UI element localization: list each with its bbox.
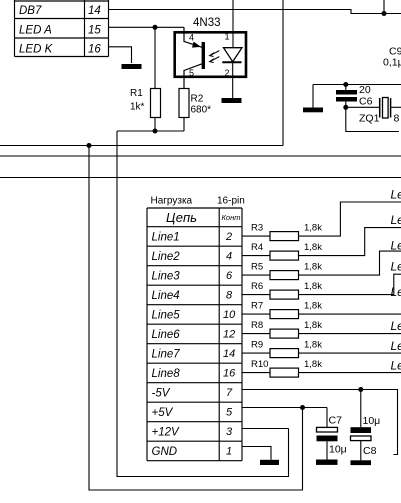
svg-text:10: 10 bbox=[223, 309, 236, 321]
wire rail 2 bbox=[0, 155, 401, 157]
resistor R9 body bbox=[270, 349, 299, 358]
svg-text:1,8k: 1,8k bbox=[304, 281, 322, 292]
svg-text:5: 5 bbox=[189, 68, 194, 78]
svg-text:1,8k: 1,8k bbox=[304, 359, 322, 370]
svg-text:1: 1 bbox=[225, 32, 230, 42]
svg-text:R1: R1 bbox=[130, 88, 143, 99]
svg-text:Le: Le bbox=[391, 260, 401, 274]
svg-text:3: 3 bbox=[226, 426, 233, 438]
wire C6 bottom to crystal bbox=[346, 106, 380, 108]
capacitor C7 lead to ground bbox=[326, 441, 328, 459]
svg-text:12: 12 bbox=[223, 329, 235, 341]
capacitor C8 negative plate bbox=[351, 427, 372, 433]
capacitor C8 positive plate bbox=[351, 436, 372, 441]
crystal ZQ1 bbox=[380, 98, 391, 118]
svg-text:14: 14 bbox=[223, 348, 235, 360]
wire Line2 to R4 and out bbox=[242, 228, 401, 256]
resistor R2 body bbox=[179, 89, 189, 118]
junction node LED A / R1 bbox=[153, 25, 158, 30]
svg-text:1,8k: 1,8k bbox=[304, 340, 322, 351]
ground for GND pin bbox=[260, 460, 279, 465]
capacitor C7 positive plate bbox=[326, 408, 328, 428]
ground for C8 bbox=[351, 460, 372, 465]
svg-text:GND: GND bbox=[152, 446, 178, 458]
svg-text:R10: R10 bbox=[251, 359, 268, 370]
svg-text:DB7: DB7 bbox=[19, 5, 42, 17]
svg-text:Line7: Line7 bbox=[152, 349, 181, 361]
svg-text:1,8k: 1,8k bbox=[304, 223, 322, 234]
wire rail 3 bbox=[0, 177, 401, 179]
svg-text:Le: Le bbox=[391, 285, 401, 299]
svg-text:1,8k: 1,8k bbox=[304, 262, 322, 273]
wire +5V rail to crystal area bbox=[313, 84, 401, 86]
resistor R4 body bbox=[270, 251, 299, 260]
wire Line1 to R3 and out bbox=[242, 202, 401, 236]
svg-text:Le: Le bbox=[391, 319, 401, 333]
svg-text:R3: R3 bbox=[251, 223, 263, 234]
resistor R5 body bbox=[270, 271, 299, 280]
junction node C6 bottom bbox=[343, 105, 348, 110]
ground for C7 bbox=[316, 460, 338, 465]
svg-text:0,1μ: 0,1μ bbox=[383, 57, 401, 69]
svg-text:LED K: LED K bbox=[19, 44, 54, 56]
svg-text:C7: C7 bbox=[329, 415, 343, 427]
ground for LED K bbox=[122, 64, 142, 69]
svg-text:+5V: +5V bbox=[152, 407, 174, 419]
svg-text:16-pin: 16-pin bbox=[217, 196, 245, 207]
svg-text:Line3: Line3 bbox=[152, 271, 181, 283]
svg-text:C6: C6 bbox=[359, 96, 373, 108]
svg-text:Line1: Line1 bbox=[152, 232, 180, 244]
led triangle bbox=[224, 48, 243, 62]
wire Line8 to R10 and out bbox=[242, 372, 401, 374]
svg-text:Le: Le bbox=[391, 339, 401, 353]
svg-text:8: 8 bbox=[226, 290, 233, 302]
wire opto pin 1 up to top edge bbox=[232, 0, 234, 48]
svg-text:10μ: 10μ bbox=[363, 415, 381, 427]
wire rail 1 bbox=[0, 145, 283, 147]
led anode wire pin1 bbox=[232, 48, 234, 62]
light arrow 2 bbox=[211, 57, 220, 62]
svg-text:2: 2 bbox=[225, 231, 232, 243]
wire -5V net bbox=[242, 390, 398, 455]
svg-text:Нагрузка: Нагрузка bbox=[151, 196, 193, 207]
wire LED A to optocoupler pin 4 bbox=[109, 26, 185, 28]
svg-text:16: 16 bbox=[223, 368, 236, 380]
svg-text:R4: R4 bbox=[251, 242, 263, 253]
svg-text:R6: R6 bbox=[251, 281, 263, 292]
wire Line3 to R5 and out bbox=[242, 251, 401, 275]
junction node rail1 x89 bbox=[87, 143, 92, 148]
svg-text:Line4: Line4 bbox=[152, 290, 180, 302]
svg-text:20: 20 bbox=[359, 84, 371, 96]
connector table borders bbox=[147, 208, 242, 461]
phototransistor collector arrowhead bbox=[192, 42, 201, 48]
svg-text:Line5: Line5 bbox=[152, 310, 181, 322]
wire R1 top lead bbox=[154, 27, 156, 88]
wire stub up from DB7 node bbox=[383, 0, 385, 14]
optocoupler U1 box bbox=[175, 32, 246, 77]
svg-text:Le: Le bbox=[391, 359, 401, 373]
svg-text:Line2: Line2 bbox=[152, 251, 181, 263]
light arrow 1 bbox=[211, 51, 220, 56]
svg-text:Конт: Конт bbox=[222, 213, 241, 222]
junction node R1 bottom bbox=[153, 129, 158, 134]
wire R1 bottom lead bbox=[154, 118, 156, 132]
phototransistor emitter line pin5 bbox=[184, 64, 202, 89]
svg-text:5: 5 bbox=[226, 407, 233, 419]
svg-text:7: 7 bbox=[226, 387, 233, 399]
led cathode wire pin2 to ground bbox=[232, 62, 234, 98]
ground left of C6 bbox=[312, 85, 314, 108]
svg-text:16: 16 bbox=[88, 44, 101, 56]
svg-text:Le: Le bbox=[391, 213, 401, 227]
svg-text:4: 4 bbox=[226, 251, 232, 263]
wire DB7 to right edge bbox=[109, 10, 401, 14]
svg-text:-5V: -5V bbox=[152, 388, 171, 400]
svg-text:8: 8 bbox=[394, 113, 400, 125]
svg-text:Line8: Line8 bbox=[152, 368, 181, 380]
svg-text:14: 14 bbox=[88, 5, 101, 17]
svg-text:C8: C8 bbox=[363, 445, 377, 457]
svg-text:1,8k: 1,8k bbox=[304, 242, 322, 253]
svg-text:R7: R7 bbox=[251, 301, 263, 312]
led cathode bar bbox=[222, 61, 241, 63]
svg-text:10μ: 10μ bbox=[329, 444, 347, 456]
wire C6 bottom down and right bbox=[346, 107, 399, 131]
junction node C6 top bbox=[343, 82, 348, 87]
wire +5V net left vertical and bottom run bbox=[89, 146, 303, 491]
svg-text:15: 15 bbox=[88, 25, 101, 37]
phototransistor collector line pin4 bbox=[184, 27, 202, 47]
resistor R8 body bbox=[270, 329, 299, 338]
wire +12V pin stub bbox=[242, 428, 289, 430]
ground for led pin2 bbox=[222, 98, 242, 103]
svg-text:1k*: 1k* bbox=[130, 102, 145, 113]
wire LED K to ground bbox=[109, 47, 132, 63]
svg-text:4N33: 4N33 bbox=[193, 17, 221, 29]
svg-text:1: 1 bbox=[226, 446, 232, 458]
connector table top-left borders bbox=[15, 0, 109, 57]
junction node -5V / C8 bbox=[358, 387, 363, 392]
resistor R10 body bbox=[270, 368, 299, 377]
capacitor C8 lead from -5V bbox=[360, 390, 362, 428]
resistor ladder wires and bodies bbox=[242, 202, 401, 373]
resistor R6 body bbox=[270, 290, 299, 299]
wire R2 bottom lead bbox=[183, 118, 185, 132]
svg-text:2: 2 bbox=[225, 68, 230, 78]
wire R1 R2 bottom bus bbox=[117, 130, 184, 132]
svg-text:1,8k: 1,8k bbox=[304, 301, 322, 312]
wire Line4 to R6 and out bbox=[242, 274, 401, 294]
svg-text:ZQ1: ZQ1 bbox=[359, 113, 380, 125]
svg-text:Le: Le bbox=[391, 188, 401, 202]
svg-text:R5: R5 bbox=[251, 262, 263, 273]
capacitor C6 bbox=[345, 85, 347, 91]
svg-text:R2: R2 bbox=[191, 94, 204, 105]
svg-text:+12V: +12V bbox=[152, 427, 181, 439]
svg-text:6: 6 bbox=[226, 270, 233, 282]
svg-text:R8: R8 bbox=[251, 320, 263, 331]
svg-text:Цепь: Цепь bbox=[166, 210, 197, 225]
wire +5V net bbox=[242, 407, 327, 409]
svg-text:Line6: Line6 bbox=[152, 329, 181, 341]
svg-text:LED A: LED A bbox=[19, 25, 52, 37]
phototransistor base bar bbox=[202, 42, 205, 69]
wire Line7 to R9 and out bbox=[242, 352, 401, 354]
junction node DB7 x384 bbox=[382, 11, 387, 16]
svg-text:1,8k: 1,8k bbox=[304, 320, 322, 331]
svg-text:Le: Le bbox=[391, 239, 401, 253]
wire GND pin to ground bbox=[242, 447, 271, 460]
wire Line6 to R8 and out bbox=[242, 333, 401, 335]
svg-text:R9: R9 bbox=[251, 340, 263, 351]
resistor R7 body bbox=[270, 310, 299, 319]
resistor R3 body bbox=[270, 232, 299, 241]
wire long vertical x283 to rail bbox=[282, 0, 284, 146]
svg-text:680*: 680* bbox=[191, 105, 212, 116]
capacitor C7 negative plate bbox=[317, 436, 338, 442]
wire +12V net left vertical and bottom run bbox=[117, 131, 289, 477]
wire Line5 to R7 and out bbox=[242, 313, 401, 315]
svg-text:4: 4 bbox=[189, 33, 194, 43]
capacitor C8 lead to ground bbox=[360, 441, 362, 461]
resistor R1 body bbox=[151, 89, 161, 118]
junction node +5V x302.5 bbox=[300, 405, 305, 410]
